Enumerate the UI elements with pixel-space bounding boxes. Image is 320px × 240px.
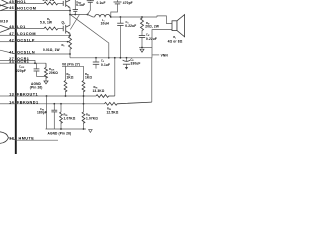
- inductor L1 10uH: [95, 14, 111, 17]
- junction OCR: [34, 62, 36, 64]
- junction C4 top: [120, 16, 122, 18]
- junction fb top: [114, 57, 116, 59]
- svg-text:41: 41: [9, 51, 14, 55]
- capacitor C7 330uF (electrolytic): [123, 58, 131, 70]
- junction V6b: [83, 103, 85, 105]
- wire LO1COM from edge: [0, 34, 16, 36]
- wire LO1 to gate resistor: [16, 28, 44, 30]
- svg-text:20KΩ: 20KΩ: [49, 71, 58, 75]
- wire LO1 pin stub: [10, 28, 16, 30]
- resistor RG2 (LO1 gate): [44, 27, 58, 30]
- junction inductor/cap3 elbow: [110, 16, 112, 18]
- junction V6b on FBKOUT1: [83, 95, 85, 97]
- wire AGND bottom rail: [46, 128, 87, 130]
- svg-text:0.1uF: 0.1uF: [76, 3, 85, 7]
- svg-text:42: 42: [9, 38, 14, 42]
- svg-text:1.07KΩ: 1.07KΩ: [64, 117, 76, 121]
- junction LO1COM emitter: [69, 34, 71, 36]
- capacitor C3 470pF (top, cut by edge): [111, 0, 122, 17]
- svg-text:18: 18: [9, 137, 14, 141]
- junction C7 top: [126, 57, 128, 59]
- junction agnd a: [60, 128, 62, 130]
- wire gate resistor to Q1: [58, 2, 63, 4]
- svg-text:HO1COM: HO1COM: [17, 7, 36, 11]
- svg-text:10uH: 10uH: [101, 21, 110, 25]
- svg-text:1KΩ: 1KΩ: [67, 76, 74, 80]
- VNN tick: [152, 54, 159, 56]
- wire FBKGND1 from edge: [0, 103, 16, 105]
- wire gate resistor to Q2: [58, 28, 63, 30]
- wire OCS1LP to sense resistor: [16, 41, 68, 43]
- capacitor C bootstrap 0.1uF: [73, 0, 78, 15]
- wire speaker return: [152, 30, 172, 58]
- svg-text:0.1uF: 0.1uF: [101, 63, 110, 67]
- capacitor C5 0.22uF (zobel): [139, 31, 145, 48]
- resistor R FB1 13.3K (in line): [96, 95, 115, 98]
- svg-text:470pF: 470pF: [123, 1, 133, 5]
- junction R1.07a top: [60, 103, 62, 105]
- resistor R FB2 12.5K (in line): [105, 102, 152, 105]
- junction HO1COM column: [69, 10, 71, 12]
- svg-text:V6 (Pin 27): V6 (Pin 27): [62, 62, 80, 66]
- wire speaker top feed: [157, 16, 172, 24]
- ground AGND (zobel): [140, 49, 144, 52]
- ground AGND (OCR): [44, 81, 48, 84]
- wire output node (y14.5): [70, 14, 88, 16]
- svg-text:AGND (Pin 26): AGND (Pin 26): [48, 131, 72, 135]
- IC boundary line: [15, 0, 17, 154]
- junction C6 top: [95, 57, 97, 59]
- driver triangle U1a (HO1): [0, 0, 8, 6]
- svg-text:(Pin 26): (Pin 26): [30, 86, 43, 90]
- wire Q2 emitter node down: [69, 33, 71, 36]
- wire VNN rail: [70, 57, 152, 59]
- wire RS bottom to VNN rail: [69, 49, 71, 57]
- svg-text:20Ω, 2W: 20Ω, 2W: [145, 24, 159, 28]
- svg-text:0.1uF: 0.1uF: [97, 1, 106, 5]
- svg-text:1KΩ: 1KΩ: [85, 76, 92, 80]
- wire OCS1LP from edge: [0, 41, 16, 43]
- wire after inductor: [110, 16, 157, 18]
- svg-text:45: 45: [9, 0, 14, 4]
- capacitor C OCR 220pF: [34, 63, 40, 76]
- svg-text:47: 47: [9, 32, 14, 36]
- junction fb cap tap: [46, 95, 48, 97]
- speaker SPK: [172, 15, 185, 37]
- driver triangle U1b (HO1COM): [0, 5, 8, 11]
- wire OCR ground link: [37, 76, 47, 78]
- svg-text:5.6, 1W: 5.6, 1W: [43, 0, 55, 2]
- junction output right: [87, 14, 89, 16]
- wire LO1COM to emitter node: [16, 34, 70, 36]
- wire V6 rail: [62, 65, 84, 67]
- svg-text:14: 14: [9, 100, 15, 104]
- wire FBKGND1 net: [16, 103, 105, 105]
- resistor RW 20 ohm 2W (vertical): [141, 17, 144, 31]
- svg-text:0.22uF: 0.22uF: [125, 24, 136, 28]
- wire HMUTE stub: [8, 138, 15, 140]
- svg-text:4Ω or 8Ω: 4Ω or 8Ω: [168, 40, 183, 44]
- wire HO1COM net: [16, 10, 70, 12]
- svg-text:5.6, 1W: 5.6, 1W: [40, 21, 52, 25]
- capacitor C4 0.22uF: [117, 17, 123, 58]
- wire OCS1LN from edge: [0, 50, 16, 54]
- svg-text:220pF: 220pF: [16, 69, 26, 73]
- wire HMUTE net: [16, 139, 58, 141]
- junction zobel bottom: [141, 47, 143, 49]
- resistor RG1 (HO1 gate): [44, 2, 58, 5]
- svg-text:13: 13: [9, 93, 14, 97]
- svg-text:1.07KΩ: 1.07KΩ: [86, 117, 98, 121]
- wire FBKOUT1 from edge: [0, 95, 16, 97]
- svg-text:180pF: 180pF: [37, 111, 47, 115]
- svg-text:0.22uF: 0.22uF: [146, 37, 157, 41]
- driver triangle U1c (LO1): [0, 25, 10, 32]
- diagonal wire D_a: [70, 15, 79, 30]
- wire HO1COM pin stub: [0, 10, 16, 12]
- wire HO1 to gate resistor: [16, 2, 44, 4]
- junction agnd b: [83, 128, 85, 130]
- wire OCR1 pin27: [16, 60, 35, 63]
- ground AGND (bottom): [89, 130, 93, 133]
- junction OCS1LN: [69, 53, 71, 55]
- resistor R OCR 20K (vertical): [45, 63, 48, 78]
- svg-text:48: 48: [9, 25, 14, 29]
- transistor Q1 (high side): [63, 0, 70, 8]
- junction C FB top: [53, 103, 55, 105]
- wire FBKOUT1 net: [16, 95, 96, 97]
- wire OCS1LN: [16, 53, 70, 55]
- diagonal wire D_b: [71, 15, 109, 58]
- svg-text:46: 46: [9, 6, 14, 10]
- resistor R V6b 1K: [82, 66, 85, 104]
- svg-text:0.01Ω, 1W: 0.01Ω, 1W: [43, 48, 60, 52]
- wire output to inductor jog: [88, 15, 94, 18]
- svg-text:12.5KΩ: 12.5KΩ: [107, 111, 119, 115]
- junction output node: [69, 14, 71, 16]
- capacitor C2 0.1uF (top, cut by edge): [87, 0, 94, 15]
- wire OCR1 pin27 from edge: [0, 59, 16, 61]
- svg-text:13.3KΩ: 13.3KΩ: [93, 89, 105, 93]
- wire Q1 emitter down: [69, 8, 71, 26]
- resistor R 1.07K a (vertical): [60, 104, 63, 129]
- wire fbkout divider vertical: [46, 96, 48, 129]
- resistor R V6a 1K: [64, 66, 67, 96]
- gate driver ellipse (HMUTE): [0, 132, 8, 144]
- wire OCR1 pin33: [0, 62, 46, 64]
- junction bootstrap cap: [74, 14, 76, 16]
- feedback vertical from VNN: [114, 58, 116, 96]
- wire HO1 pin stub: [8, 2, 16, 4]
- junction zobel top: [141, 16, 143, 18]
- junction D_b on VNN: [108, 57, 110, 59]
- resistor RS 0.01 ohm (vertical): [69, 36, 72, 49]
- svg-text:VNN: VNN: [161, 53, 169, 57]
- capacitor C6 0.1uF (VNN bypass): [93, 58, 99, 69]
- junction V6a: [65, 95, 67, 97]
- junction OCS1LP tap: [67, 41, 69, 43]
- svg-text:330uF: 330uF: [131, 62, 141, 66]
- resistor R 1.07K b (vertical): [82, 104, 85, 129]
- capacitor C FB 180pF (vertical): [51, 104, 57, 129]
- svg-text:N10: N10: [0, 19, 9, 23]
- wire zobel bottom: [139, 47, 152, 49]
- wire 20K bottom stub: [45, 77, 47, 82]
- wire fb loop right: [151, 58, 153, 102]
- junction C4 bottom VNN: [120, 57, 122, 59]
- transistor Q2 (low side): [63, 25, 70, 34]
